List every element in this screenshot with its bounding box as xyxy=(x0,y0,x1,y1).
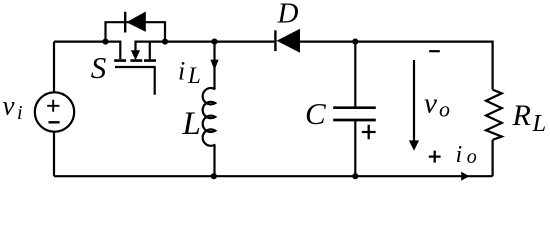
svg-text:L: L xyxy=(532,110,547,137)
svg-text:S: S xyxy=(91,50,107,85)
label vi xyxy=(3,91,23,124)
svg-text:v: v xyxy=(3,91,15,121)
resistor RL zigzag xyxy=(486,90,502,140)
node: drain junction xyxy=(102,39,108,45)
capacitor plus polarity xyxy=(362,125,376,139)
wire: capacitor branch top xyxy=(354,42,356,107)
wire: MOSFET source segment to right node xyxy=(136,42,166,51)
transistor S gate xyxy=(115,67,155,95)
current arrow io xyxy=(461,172,469,181)
body diode of S xyxy=(125,12,146,33)
svg-text:R: R xyxy=(512,99,531,132)
label io xyxy=(456,142,477,168)
transistor S body arrow xyxy=(131,50,140,60)
label D xyxy=(277,0,299,30)
svg-text:i: i xyxy=(178,57,185,86)
wire: body diode loop xyxy=(106,22,166,41)
node: inductor bottom junction xyxy=(211,173,217,179)
wire: top rail middle (to diode D anode side) xyxy=(165,40,274,42)
node: capacitor bottom junction xyxy=(352,173,358,179)
wire: MOSFET source contact leg xyxy=(149,42,151,60)
diode D xyxy=(275,29,300,53)
node: source junction xyxy=(162,39,168,45)
wire: capacitor branch bottom xyxy=(354,121,356,176)
svg-text:v: v xyxy=(424,88,437,120)
svg-text:L: L xyxy=(187,63,201,88)
label vo xyxy=(424,88,450,122)
wire: left vertical bottom (source to bottom rail) xyxy=(53,132,55,176)
svg-text:L: L xyxy=(182,106,201,142)
wire: inductor branch bottom xyxy=(213,145,215,177)
node: inductor top junction xyxy=(211,39,217,45)
inductor L coil xyxy=(203,88,216,146)
wire: top rail left segment to MOSFET drain xyxy=(54,42,120,60)
capacitor C plates xyxy=(333,108,376,120)
svg-text:i: i xyxy=(456,142,463,168)
svg-text:i: i xyxy=(17,102,23,124)
label iL xyxy=(178,57,201,89)
svg-text:D: D xyxy=(277,0,299,30)
wire: resistor bottom to rail xyxy=(492,140,494,176)
wire: bottom rail xyxy=(54,175,493,177)
voltage source Vi xyxy=(35,92,74,131)
svg-text:C: C xyxy=(305,96,326,131)
label plus of vo xyxy=(429,151,441,163)
svg-text:o: o xyxy=(467,146,477,168)
label C xyxy=(305,96,326,131)
label RL xyxy=(512,99,547,137)
wire: top rail right segment xyxy=(300,42,493,90)
wire: inductor branch top xyxy=(213,42,215,90)
label L xyxy=(182,106,201,142)
voltage arrow vo xyxy=(409,60,419,151)
label minus of vo xyxy=(429,50,440,52)
transistor S channel bars xyxy=(114,59,156,62)
svg-text:o: o xyxy=(439,96,450,121)
wire: left vertical top (source to rail) xyxy=(53,42,55,93)
label S xyxy=(91,50,107,85)
current arrow iL xyxy=(210,60,218,71)
node: capacitor top junction xyxy=(352,39,358,45)
